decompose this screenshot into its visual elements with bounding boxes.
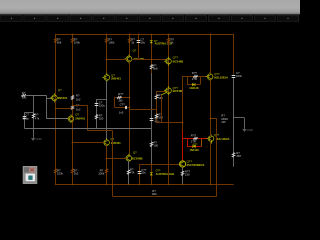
diode D4 ref label (193, 143, 198, 146)
junction top rail x138.7 (138, 34, 140, 36)
wire input horizontal to Q1 base (26, 95, 46, 97)
capacitor C7 1n5 symbol (comp loop) (126, 106, 127, 109)
resistor R5 47k to ground symbol (32, 114, 35, 119)
wire horizontal y105.2 (72, 105, 87, 107)
wire Q1 base stub (46, 98, 52, 100)
transistor Q2 labels (75, 112, 85, 120)
svg-text:Q?: Q? (58, 88, 62, 92)
junction rail A x106.6 (106, 184, 108, 186)
svg-text:47k: 47k (35, 117, 40, 121)
transistor QE labels (187, 159, 205, 167)
wire upper loop right vertical (200, 77, 202, 85)
diode D4 1N4148 symbol (193, 145, 196, 148)
transistor QC labels (214, 72, 228, 79)
junction comp loop top (129, 97, 131, 99)
capacitor C4 labels (236, 71, 243, 78)
resistor R9 labels (131, 38, 135, 45)
resistor R20 labels (191, 134, 197, 144)
resistor R21 labels (221, 113, 228, 124)
junction top rail x151.3 (151, 34, 153, 36)
svg-text:2N5401: 2N5401 (111, 77, 121, 81)
resistor R14 labels (74, 168, 79, 175)
capacitor C3 220u symbol (95, 104, 99, 106)
resistor R6 labels (76, 93, 81, 101)
junction top rail x210.2 (210, 34, 212, 36)
wire feedback to Q2 base (46, 118, 68, 120)
junction Q6 base at x106 (106, 158, 108, 160)
wire top supply rail (55, 34, 234, 36)
svg-text:100: 100 (153, 144, 158, 148)
wire Q5 base horizontal (107, 59, 127, 61)
wire horizontal y122.8 (156, 122, 182, 124)
resistor R13 labels (57, 168, 64, 175)
capacitor C6 10u symbol (138, 172, 142, 174)
wire zobel gnd branch horizontal (234, 117, 245, 119)
svg-text:1R0: 1R0 (152, 192, 158, 196)
wire upper loop bottom (187, 84, 200, 86)
capacitor C2 labels (141, 38, 146, 45)
wire lower loop bottom red (187, 146, 202, 148)
resistor R11 symbol (ladder low) (150, 142, 153, 147)
wire vertical x210 middle (210, 79, 212, 136)
wire cap branch vertical x24 (24, 112, 26, 128)
wire vertical x233.6 gray (233, 78, 235, 167)
wire comp loop bottom y107.5 (115, 107, 129, 109)
resistor R2 100k symbol (71, 38, 73, 43)
resistor R16 labels (130, 168, 135, 175)
ground symbol zobel (243, 128, 247, 132)
svg-text:150: 150 (185, 172, 190, 176)
svg-text:100: 100 (99, 117, 104, 121)
transistor QB labels (173, 86, 184, 93)
resistor R22 labels (185, 169, 191, 176)
wire vertical x106.6 upper (106, 34, 108, 75)
svg-text:27R: 27R (192, 77, 197, 81)
svg-text:2N5401: 2N5401 (58, 96, 68, 100)
wire bottom rail B y196 (113, 196, 217, 198)
diode D3 1N4148 symbol (192, 83, 195, 86)
svg-text:GND: GND (35, 137, 41, 141)
resistor R6 1k2 symbol (x72 upper) (71, 95, 74, 100)
resistor R18 symbol (chain lower) (155, 114, 158, 119)
junction rail A x182.7 (182, 184, 184, 186)
capacitor C6 labels (141, 168, 147, 175)
wire Q1 emitter horizontal y108.8 (55, 108, 72, 110)
transistor QA BC546B (164, 57, 171, 66)
wire QB emitter diagonal (162, 92, 167, 94)
transistor Q1 2N5401 (50, 93, 57, 102)
resistor R18 labels (158, 112, 163, 119)
capacitor C3 labels (99, 101, 106, 108)
wire input node down x33 (33, 95, 35, 136)
junction Q1 emitter join x72 (72, 109, 74, 111)
capacitor C1 input symbol (23, 117, 27, 119)
junction output node (210, 118, 212, 120)
svg-text:560: 560 (158, 115, 163, 119)
wire vertical x168.7 (168, 34, 170, 185)
ground label input (35, 137, 41, 141)
wire upper loop left vertical (187, 77, 189, 85)
junction x182 y122.8 (182, 122, 184, 124)
wire vertical x216.8 to out rail (216, 119, 218, 196)
resistor R8 labels (108, 38, 115, 45)
wire branch to C at x24 (24, 112, 33, 114)
transistor Q6 labels (132, 150, 143, 160)
svg-text:3k3: 3k3 (74, 171, 79, 175)
transistor Q3 labels (111, 73, 121, 80)
transistor Q4 labels (110, 137, 121, 145)
junction rail A x168.7 (168, 184, 170, 186)
resistor R14 3k3 symbol (bottom of x72) (71, 169, 73, 174)
junction y105.2 at x72 (72, 105, 74, 107)
svg-text:R??: R?? (191, 134, 197, 138)
svg-text:R??: R?? (192, 71, 198, 75)
junction Q1 emitter (55, 108, 57, 110)
resistor R15 labels (98, 168, 105, 175)
capacitor C1 / resistor R5 labels (23, 113, 40, 121)
resistor R16 47k symbol (below Q6) (127, 170, 130, 175)
desktop icon (23, 166, 37, 183)
svg-text:220p: 220p (23, 117, 30, 121)
capacitor C5 symbol (ladder) (150, 119, 154, 121)
svg-text:100k: 100k (98, 172, 105, 176)
wire vertical x106.6 gray middle (106, 80, 108, 140)
wire lower cluster horizontal y138.9 red (182, 138, 207, 140)
resistor R8 100k symbol (105, 38, 107, 43)
resistor R11 labels (153, 141, 158, 148)
svg-text:1N4148: 1N4148 (190, 148, 200, 152)
wire horizontal y130.8 (87, 130, 112, 132)
svg-text:D??: D?? (193, 143, 198, 146)
wire vertical x210 bottom (210, 141, 212, 185)
svg-text:2N5401: 2N5401 (75, 117, 85, 121)
svg-text:Q?: Q? (133, 48, 137, 52)
svg-text:10u: 10u (141, 171, 146, 175)
resistor R24 labels (236, 151, 242, 158)
LED D1 labels (154, 39, 172, 46)
svg-text:10u: 10u (141, 41, 146, 45)
svg-text:100k: 100k (57, 171, 64, 175)
wire branch y99.2 (96, 99, 106, 101)
wire vertical x151.3 upper (orange) (151, 34, 153, 73)
svg-text:6k8: 6k8 (153, 67, 158, 71)
svg-text:AUSTRIA LED: AUSTRIA LED (156, 172, 175, 176)
svg-text:47k: 47k (130, 171, 135, 175)
diode D3 label (189, 86, 199, 90)
diode D4 label (190, 148, 200, 152)
resistor R15 100k symbol (bottom x106) (105, 169, 107, 174)
rail B label (152, 189, 158, 196)
resistor R24 4R7 symbol (zobel) (232, 153, 235, 158)
resistor R12 labels (171, 38, 175, 45)
wire upper cluster horizontal y76.6 (182, 76, 208, 78)
svg-text:4R7: 4R7 (236, 154, 242, 158)
resistor R12 1k symbol (167, 38, 169, 43)
wire long gray feedback y128.4 (24, 128, 151, 130)
transistor Q4 2N5401 (lower) (102, 138, 109, 147)
capacitor C2 10u symbol (137, 41, 141, 43)
junction rail A x210.2 (210, 184, 212, 186)
resistor R1 labels (57, 38, 62, 45)
svg-text:560: 560 (158, 96, 163, 100)
svg-text:Q?: Q? (133, 150, 137, 154)
wire vertical x151.3 gray lower (151, 73, 153, 165)
svg-text:220u: 220u (99, 104, 106, 108)
junction top rail x72 (72, 34, 74, 36)
svg-text:1N4148: 1N4148 (189, 86, 199, 90)
wire bottom rail A y184.8 (55, 184, 234, 186)
wire QE base horizontal y164.6 (139, 164, 179, 166)
junction ladder at y59.3 (151, 59, 153, 61)
wire vertical x129 middle (129, 62, 131, 156)
svg-text:BC546B: BC546B (173, 60, 184, 64)
wire vertical x138.7 (compensation cap) (138, 34, 140, 59)
resistor R22 150R symbol (QE emitter) (181, 171, 184, 176)
junction rail A x139.2 (139, 184, 141, 186)
wire below QE gray (182, 167, 184, 184)
resistor R19 labels (192, 71, 198, 81)
transistor Q3 2N5401 (VAS top) (102, 73, 109, 82)
transistor Q1 labels (58, 88, 68, 100)
junction Q5 base at x106 (106, 59, 108, 61)
wire Q4 base horizontal (72, 142, 104, 144)
capacitor C5 labels (155, 116, 160, 123)
svg-text:BC546B: BC546B (173, 89, 184, 93)
wire vertical x96.3 (96, 99, 98, 128)
wire vertical x182 red part (182, 130, 184, 161)
resistor R7 labels (76, 103, 81, 111)
resistor R3 labels (22, 91, 27, 99)
resistor R17 symbol (chain upper) (155, 95, 158, 100)
wire output branch y118.9 (210, 118, 217, 120)
svg-text:R??: R?? (118, 92, 124, 96)
resistor R10 labels (153, 63, 158, 70)
resistor R25 1k5 symbol (comp loop) (117, 96, 122, 98)
wire vertical x210 top (210, 34, 212, 74)
LED D2 labels (156, 168, 175, 176)
wire vertical x139.2 (bottom cap) (139, 165, 141, 185)
wire lower loop left vertical red (187, 139, 189, 146)
svg-text:BC546B: BC546B (132, 157, 143, 161)
svg-text:C??: C?? (120, 102, 126, 106)
resistor R20 27R symbol (inline) (193, 137, 198, 139)
wire QB base horizontal (156, 91, 166, 93)
resistor R23 100 symbol (95, 114, 98, 119)
transistor Q6 BC546B (124, 154, 131, 163)
wire vertical x112.6 to rail B (112, 131, 114, 196)
resistor R10 6k8 symbol (ladder) (150, 65, 153, 70)
wire QB emitter vertical x161.6 (161, 95, 163, 123)
transistor Q5 labels (133, 48, 145, 61)
transistor QD labels (214, 133, 230, 141)
svg-text:100n: 100n (236, 74, 243, 78)
transistor QC MJL3281A (206, 72, 213, 81)
junction comp loop bottom (129, 107, 131, 109)
wire vertical x233.6 orange top (233, 34, 235, 75)
capacitor C7 labels (119, 102, 126, 114)
resistor R7 1k2 symbol (x72 lower) (71, 105, 74, 110)
wire zobel gnd branch vertical (244, 118, 246, 128)
resistor R1 6k8 symbol (54, 38, 56, 43)
wire vertical x87.4 (87, 105, 89, 131)
svg-text:2SC5200BOX: 2SC5200BOX (187, 163, 205, 167)
svg-text:100k: 100k (108, 41, 115, 45)
transistor QB BC546B (164, 86, 171, 95)
wire vertical x182 orange part (182, 77, 184, 130)
resistor R19 27R symbol (inline) (193, 75, 198, 77)
wire Q6 base horizontal (107, 158, 127, 160)
transistor QE 2SC5200 (power) (180, 161, 186, 167)
resistor R3 1k0 input series symbol (21, 94, 26, 96)
wire vertical x129 top (129, 34, 131, 56)
junction rail A x112.5 (112, 184, 114, 186)
ground symbol input (31, 137, 35, 141)
wire resistor chain vertical x156 (156, 92, 158, 123)
wire comp loop top y97.3 (115, 97, 129, 99)
wire vertical x151.3 orange bottom (151, 165, 153, 185)
svg-text:100k: 100k (74, 41, 81, 45)
junction QE base ladder (151, 164, 153, 166)
wire comp loop left vertical x114.8 (114, 97, 116, 107)
resistor R17 labels (158, 93, 163, 100)
wire vertical x106.6 lower (106, 145, 108, 185)
svg-text:GND: GND (247, 128, 253, 132)
menu toolbar buttons (1, 15, 299, 21)
transistor QA labels (173, 56, 184, 64)
transistor Q5 BC546B (125, 54, 132, 63)
transistor QD MJL1302A (207, 134, 214, 143)
LED D1 symbol (150, 41, 153, 44)
wire vertical x72 (second bias leg) (72, 34, 74, 185)
svg-text:6k8: 6k8 (57, 41, 62, 45)
wire vertical x55 (left bias leg) (55, 34, 57, 185)
junction top rail x168.7 (168, 34, 170, 36)
resistor R13 100k symbol (bottom of x55) (54, 169, 56, 174)
wire vertical x128.7 below Q6 (128, 161, 130, 185)
svg-text:4W: 4W (221, 120, 226, 124)
wire horizontal Q5 to QA base y59.3 (132, 59, 167, 61)
resistor R25 labels (118, 92, 124, 102)
ground label zobel (247, 128, 253, 132)
svg-text:1k2: 1k2 (76, 107, 81, 111)
svg-text:MJL1302A: MJL1302A (216, 137, 230, 141)
junction rail A x128.7 (128, 184, 130, 186)
resistor R2 labels (74, 38, 81, 45)
wire QD emitter stub yellow (211, 141, 213, 143)
svg-text:1k2: 1k2 (76, 97, 81, 101)
junction Q4 base at x72 (72, 142, 74, 144)
wire feedback vertical x46 (46, 95, 48, 118)
junction top rail x129.4 (129, 34, 131, 36)
junction top rail x106.6 (106, 34, 108, 36)
LED D2 symbol (150, 173, 153, 176)
svg-text:1n5: 1n5 (119, 110, 124, 114)
wire stub x129 to chain y109.2 (129, 109, 156, 111)
resistor R9 1k symbol (128, 38, 130, 43)
junction rail A x72 (72, 184, 74, 186)
capacitor C4 zobel symbol (232, 76, 236, 78)
transistor Q2 2N5401 (67, 114, 74, 123)
svg-text:AUSTRIA LED: AUSTRIA LED (155, 42, 172, 46)
titlebar gradient (0, 0, 300, 15)
resistor R23 labels (99, 114, 104, 121)
junction rail A x151.3 (151, 184, 153, 186)
wire lower loop right vertical red (201, 139, 203, 146)
svg-text:MJL3281A: MJL3281A (214, 75, 228, 79)
svg-text:1k0: 1k0 (22, 95, 27, 99)
